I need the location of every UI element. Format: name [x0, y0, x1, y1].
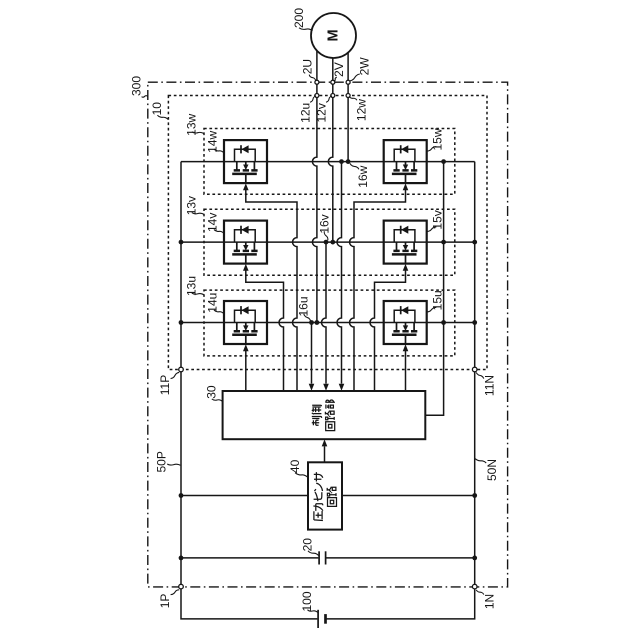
junction dots [179, 240, 184, 245]
wire 16w: phase-voltage sense line to control circuit [337, 162, 341, 384]
wire 12u: U-phase line from motor [312, 40, 317, 323]
leader for label 14w [214, 149, 224, 153]
svg-text:13w: 13w [185, 113, 199, 135]
leader for label 15u [427, 307, 436, 311]
svg-text:14u: 14u [206, 293, 220, 313]
svg-text:10: 10 [150, 102, 164, 116]
terminal node 1N [472, 584, 477, 589]
wire: sensor output to control circuit with arrow [324, 446, 326, 462]
svg-text:2W: 2W [358, 57, 372, 76]
svg-text:16v: 16v [317, 214, 331, 233]
wire 16u: phase-voltage sense line to control circuit [311, 323, 313, 384]
transistor 14w (MOSFET with body diode) [224, 140, 267, 190]
leader for label 14v [214, 230, 224, 234]
switching leg unit 13v boundary (dashed) [204, 209, 455, 275]
wire 12v: V-phase line from motor [328, 40, 333, 242]
svg-text:13u: 13u [185, 276, 199, 296]
transistor 15u (MOSFET with body diode) [384, 301, 427, 351]
svg-text:50P: 50P [155, 451, 169, 472]
leader for label 15w [427, 147, 436, 151]
leader for label 12v [326, 96, 332, 102]
wire: pressure-sensor branch [181, 495, 475, 497]
leader for label 2W [350, 74, 360, 81]
leader for label 11N [476, 372, 484, 378]
wire: u-phase half-bridge row [181, 322, 475, 324]
transistor 14u (MOSFET with body diode) [224, 301, 267, 351]
transistor 14v (MOSFET with body diode) [224, 221, 267, 271]
wire 12w: W-phase line from motor [347, 40, 349, 162]
leader for label 200 [299, 28, 313, 31]
capacitor C 20 plates [318, 551, 320, 564]
leader for label 20 [308, 551, 319, 556]
leader for label 12u [310, 96, 316, 102]
svg-text:100: 100 [300, 591, 314, 611]
terminal node 12v [331, 94, 335, 98]
svg-text:14v: 14v [206, 213, 220, 232]
pressure sensor circuit block 40 [308, 462, 342, 529]
svg-text:15v: 15v [431, 210, 445, 229]
wire: control-circuit N-side link [425, 162, 443, 416]
wire 16v: phase-voltage sense line to control circuit [322, 242, 327, 384]
leader for label 2U [309, 75, 315, 81]
terminal node 12w [346, 94, 350, 98]
leader for label 300 [142, 96, 148, 98]
svg-text:2U: 2U [301, 59, 315, 74]
terminal node 11N [472, 367, 477, 372]
leader for label 16u [304, 314, 311, 321]
svg-text:2V: 2V [332, 62, 346, 77]
terminal node 12u [315, 94, 319, 98]
svg-text:M: M [326, 29, 342, 41]
wire: capacitor branch left [181, 557, 318, 559]
svg-text:20: 20 [301, 538, 315, 552]
leader for label 13v [192, 213, 204, 215]
terminal node 2W [346, 80, 350, 84]
leader for label 15v [427, 227, 436, 231]
wire: gate drive for 15v [370, 269, 406, 391]
motor M 200 [311, 13, 356, 58]
leader for label 12w [349, 96, 357, 100]
wire: battery branch gap [325, 618, 328, 620]
svg-text:12w: 12w [354, 99, 368, 121]
inverter device 10 boundary (dashed) [168, 96, 487, 370]
wire: gate drive for 15w [350, 189, 406, 391]
svg-text:1N: 1N [483, 594, 497, 609]
svg-text:11N: 11N [483, 375, 497, 396]
svg-text:30: 30 [205, 385, 219, 399]
wire: gate drive for 14w [246, 189, 297, 391]
svg-text:16w: 16w [356, 165, 370, 187]
svg-text:300: 300 [129, 76, 143, 96]
svg-text:16u: 16u [297, 296, 311, 316]
switching leg unit 13u boundary (dashed) [204, 290, 455, 356]
wire: gate drive for 14u [245, 350, 247, 392]
wire: w-phase half-bridge row [181, 161, 475, 163]
transistor 15w (MOSFET with body diode) [384, 140, 427, 190]
leader for label 16v [324, 231, 328, 240]
label: 制御回路部 text in box 30 [312, 417, 322, 426]
svg-text:14w: 14w [206, 130, 220, 152]
terminal node 2V [331, 80, 335, 84]
svg-text:40: 40 [288, 459, 302, 473]
label: 圧力センサ回路 text in box 40 [314, 511, 323, 521]
leader for label 40 [295, 473, 308, 477]
leader for label 16w [350, 163, 359, 169]
svg-text:1P: 1P [158, 594, 172, 609]
leader for label 11P [171, 372, 180, 378]
wire: gate drive for 15u [405, 350, 407, 392]
battery 100 plates [317, 610, 319, 628]
transistor 15v (MOSFET with body diode) [384, 221, 427, 271]
svg-text:12v: 12v [315, 103, 329, 122]
terminal node 11P [179, 367, 184, 372]
svg-text:12u: 12u [299, 103, 313, 123]
leader for label 50P [167, 464, 180, 465]
svg-text:15u: 15u [431, 290, 445, 310]
wire: gate drive for 14v [246, 269, 284, 391]
leader for label 14u [214, 310, 224, 314]
wire: capacitor branch right [326, 557, 475, 559]
control circuit block 30 [223, 391, 426, 439]
leader for label 1N [476, 590, 484, 595]
svg-text:13v: 13v [185, 196, 199, 215]
leader for label 100 [307, 610, 317, 613]
leader for label 13w [192, 132, 204, 134]
svg-text:50N: 50N [485, 459, 499, 481]
svg-text:200: 200 [292, 8, 306, 28]
leader for label 1P [171, 590, 180, 595]
terminal node 2U [315, 80, 319, 84]
leader for label 13u [192, 293, 204, 295]
wire: negative bus N [326, 162, 475, 619]
leader for label 10 [157, 115, 168, 119]
leader for label 30 [212, 399, 222, 401]
enclosure 300 boundary (dash-dot) [148, 82, 508, 587]
terminal node 1P [179, 584, 184, 589]
svg-text:11P: 11P [158, 375, 172, 395]
wire: positive bus P [181, 162, 317, 619]
switching leg unit 13w boundary (dashed) [204, 129, 455, 195]
leader for label 50N [475, 459, 486, 463]
wire: v-phase half-bridge row [181, 241, 475, 243]
leader for label 2V [334, 78, 337, 81]
